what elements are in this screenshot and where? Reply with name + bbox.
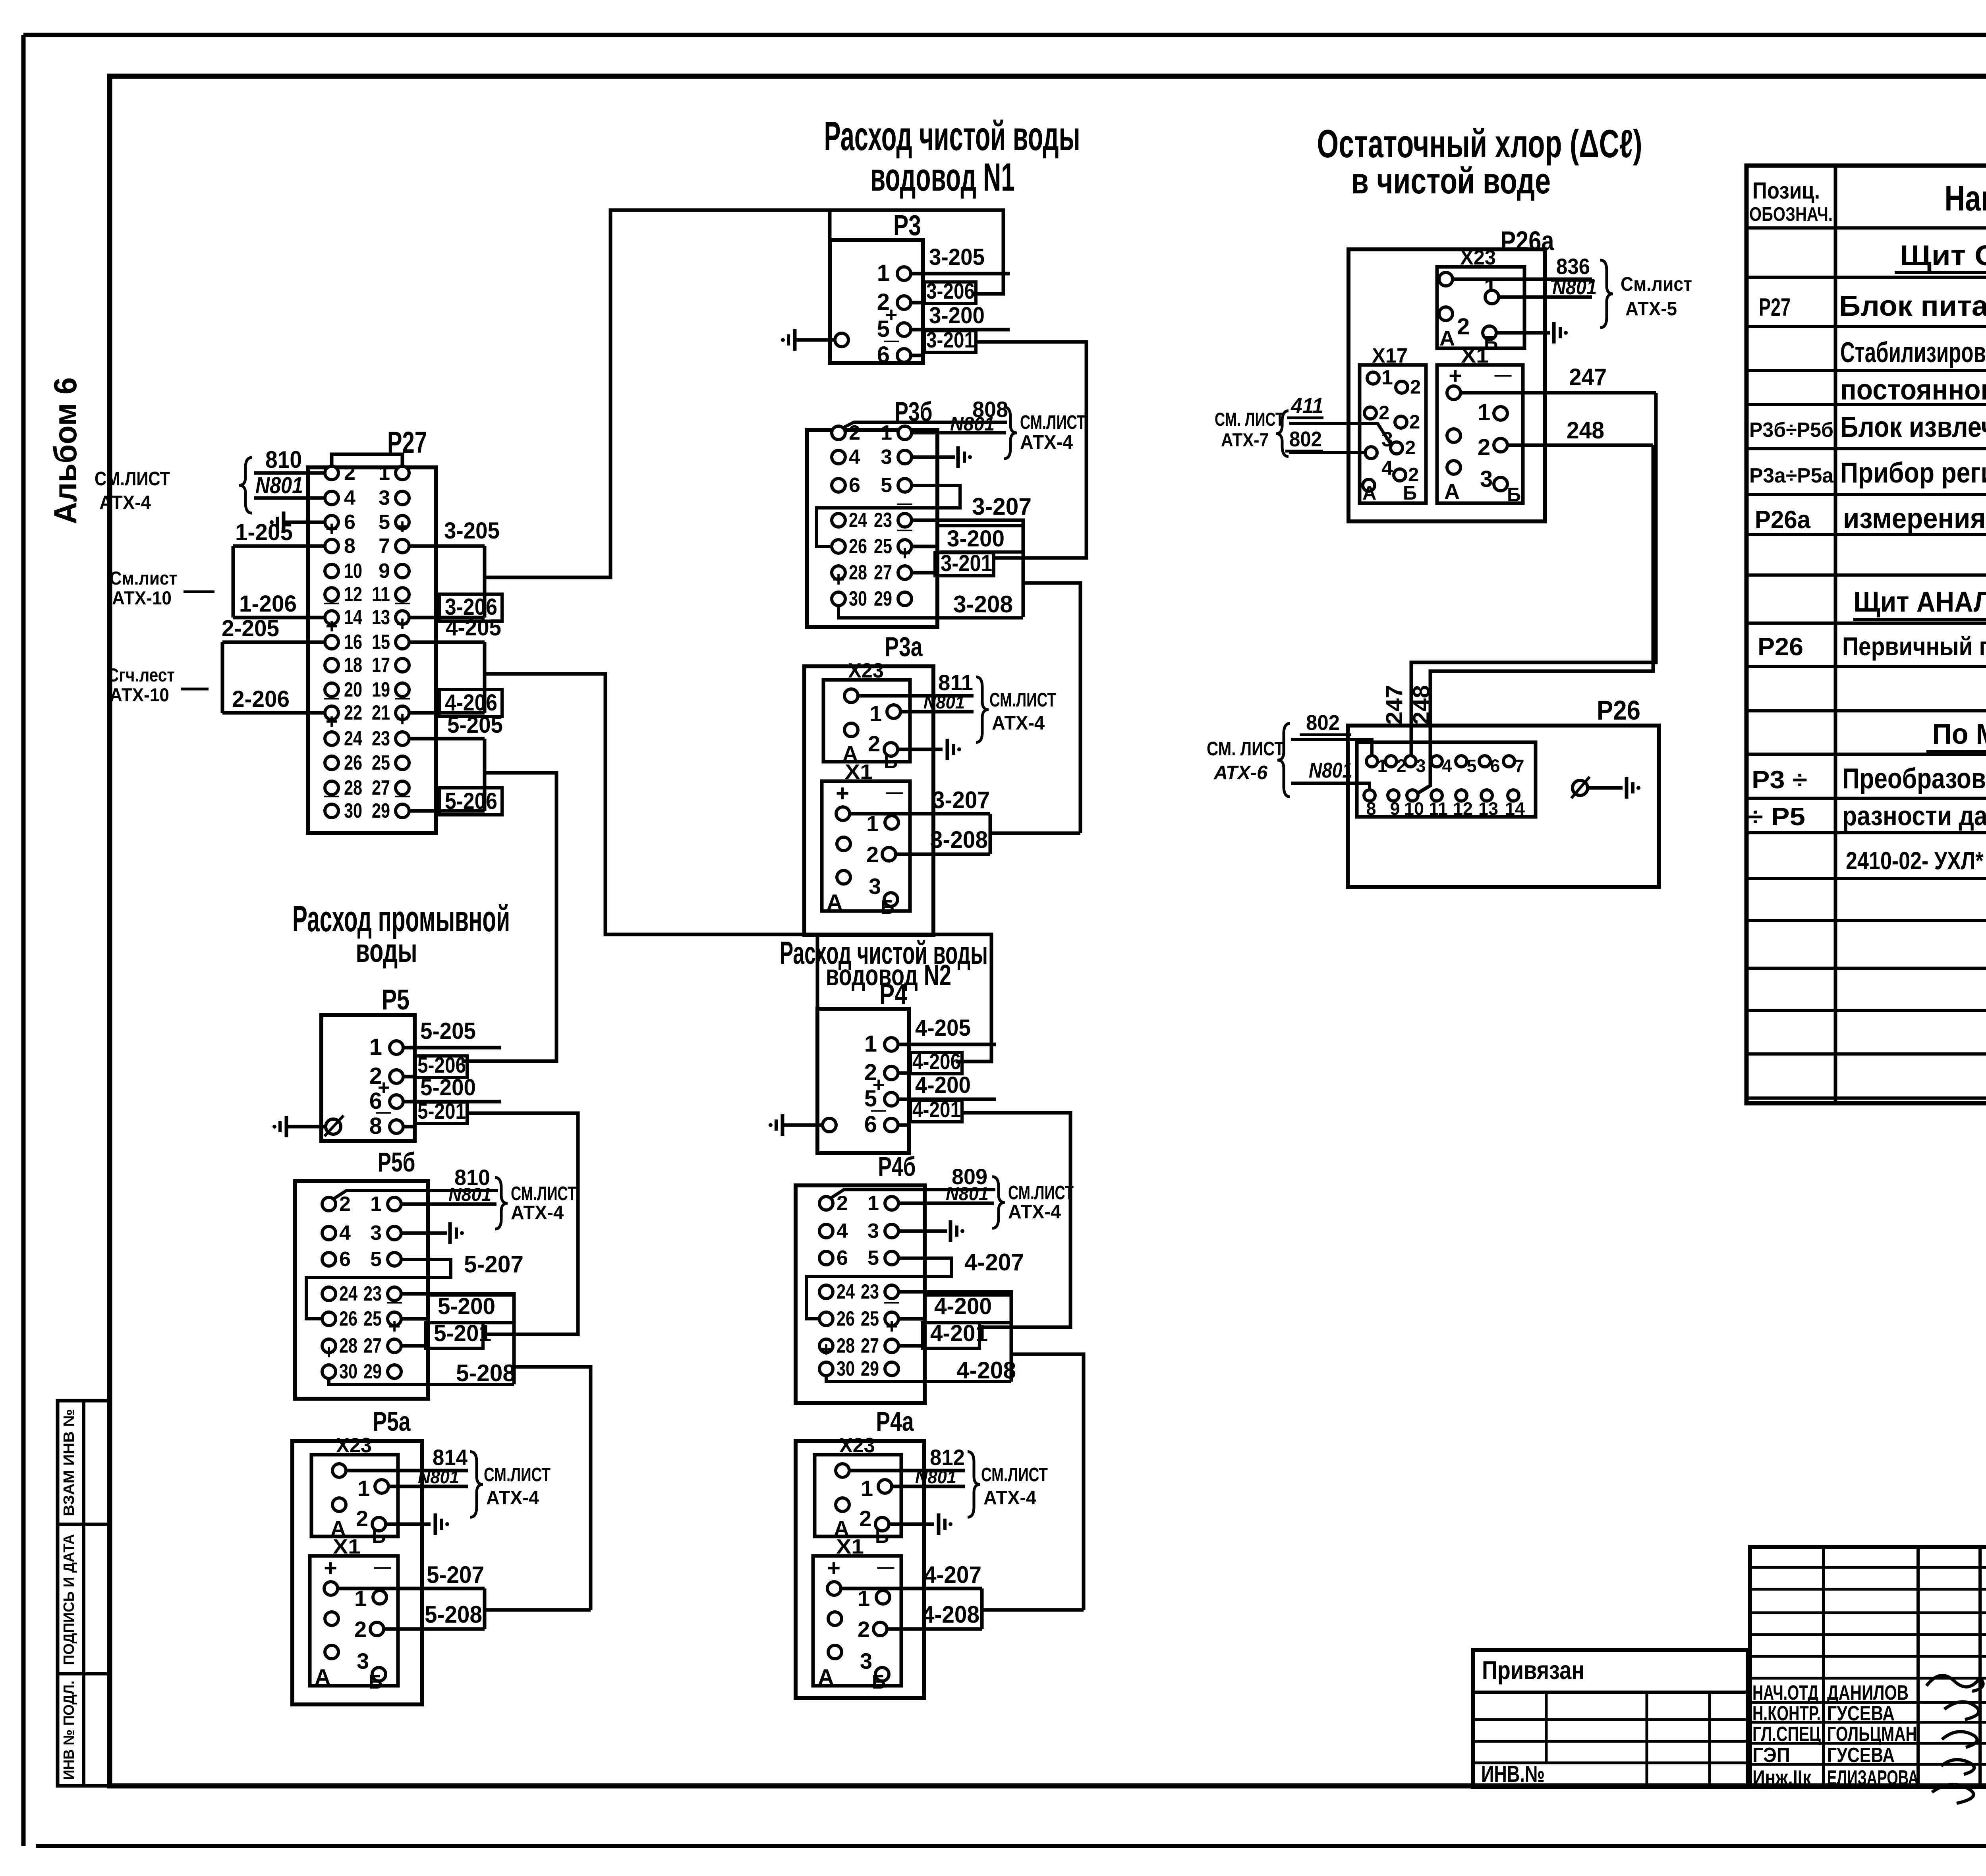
svg-text:3: 3 xyxy=(869,874,881,899)
svg-text:5-200: 5-200 xyxy=(420,1075,476,1100)
svg-text:АТХ-4: АТХ-4 xyxy=(1008,1201,1061,1223)
P27 pin 7 xyxy=(396,539,409,553)
Р4б pin 2 xyxy=(819,1197,833,1210)
wire 3-201 from P3 to P3b xyxy=(976,342,1086,558)
chlorine analyzer secondary P26a body xyxy=(1348,249,1545,521)
parts table row line xyxy=(1746,1009,1986,1012)
P27 pin 4 xyxy=(325,491,338,505)
P26 pin 8 xyxy=(1364,790,1375,801)
svg-text:6: 6 xyxy=(344,511,355,534)
wire 3-208 bottom run at P3b xyxy=(838,606,1023,618)
svg-text:N801: N801 xyxy=(1309,759,1352,782)
P3b pin 24 xyxy=(832,513,845,527)
svg-text:—: — xyxy=(1495,365,1512,384)
svg-text:N801: N801 xyxy=(946,1183,989,1204)
svg-text:1: 1 xyxy=(357,1476,370,1501)
P27 pin 17 xyxy=(396,658,409,672)
parts table row line xyxy=(1746,493,1986,496)
parts table row line xyxy=(1746,831,1986,834)
svg-text:4: 4 xyxy=(339,1222,351,1245)
svg-text:Р5: Р5 xyxy=(382,984,410,1016)
wire 810 to P27 pin 2 xyxy=(254,471,325,475)
svg-text:АТХ-4: АТХ-4 xyxy=(486,1487,539,1509)
terminal block P27 body xyxy=(308,467,436,833)
P27 pin 30 xyxy=(325,804,338,818)
svg-text:Б: Б xyxy=(372,1526,386,1547)
svg-text:Наименование: Наименование xyxy=(1945,179,1986,218)
P3b pin 27 xyxy=(898,566,912,579)
svg-text:5: 5 xyxy=(867,1247,879,1270)
svg-text:14: 14 xyxy=(344,606,362,629)
wire label box 4-201 at Р4б xyxy=(922,1323,979,1348)
wire loop 1-205/1-206 xyxy=(232,546,235,618)
svg-text:ВЗАМ ИНВ №: ВЗАМ ИНВ № xyxy=(61,1409,77,1516)
shield ground at P27 pin 6 xyxy=(270,520,274,524)
wire label box 5-206 at P27 xyxy=(439,788,502,815)
P27 pin 5 xyxy=(396,515,409,529)
P26a connector X23 xyxy=(1437,267,1524,348)
svg-text:5-201: 5-201 xyxy=(434,1320,491,1346)
P26 terminal strip xyxy=(1357,742,1536,817)
P27 pin 29 xyxy=(396,804,409,818)
svg-text:Б: Б xyxy=(881,897,894,918)
svg-text:См.лист: См.лист xyxy=(1621,274,1692,295)
parts table row line xyxy=(1746,797,1986,800)
svg-text:24: 24 xyxy=(344,727,362,750)
svg-text:9: 9 xyxy=(1390,799,1400,819)
wire junction 3-207/208 at Р3а xyxy=(989,814,992,854)
svg-text:X23: X23 xyxy=(1460,246,1496,269)
wire label 3-205 at Р3 pin 1 xyxy=(911,272,1010,276)
svg-text:—: — xyxy=(324,690,339,706)
Р5 pin 6 xyxy=(390,1095,403,1108)
svg-text:—: — xyxy=(387,1294,402,1310)
svg-text:3-208: 3-208 xyxy=(953,591,1013,618)
svg-text:12: 12 xyxy=(344,583,362,606)
svg-text:30: 30 xyxy=(837,1357,855,1380)
wire 4-201 from P4 to P4b xyxy=(962,1113,1070,1327)
Р5б pin 27 xyxy=(388,1339,401,1353)
svg-text:X17: X17 xyxy=(1372,344,1408,367)
svg-text:1: 1 xyxy=(866,811,879,836)
svg-text:5: 5 xyxy=(881,474,892,497)
svg-text:Р3б÷Р5б: Р3б÷Р5б xyxy=(1749,419,1833,442)
svg-text:3: 3 xyxy=(867,1220,879,1243)
svg-text:АТХ-4: АТХ-4 xyxy=(992,712,1045,734)
svg-text:3-207: 3-207 xyxy=(972,493,1032,520)
svg-text:Р5а: Р5а xyxy=(373,1406,411,1437)
svg-text:N801: N801 xyxy=(923,692,965,712)
svg-text:ГУСЕВА: ГУСЕВА xyxy=(1827,1744,1895,1767)
svg-text:5-207: 5-207 xyxy=(427,1561,484,1588)
P26 pin 4 xyxy=(1431,756,1442,767)
wire 4-207 from Р4б pin 23 xyxy=(898,1292,1011,1382)
see sheet ATX-4 note at Р4б xyxy=(992,1177,1005,1228)
svg-text:2: 2 xyxy=(1478,434,1490,460)
svg-text:водовод N1: водовод N1 xyxy=(870,155,1015,199)
parts table column line xyxy=(1834,166,1837,1103)
svg-text:29: 29 xyxy=(372,799,390,822)
P27 pin 26 xyxy=(325,756,338,770)
wire bus drop to P4 box corner xyxy=(816,934,819,1009)
svg-text:—: — xyxy=(886,783,903,802)
svg-text:ГЛ.СПЕЦ: ГЛ.СПЕЦ xyxy=(1752,1723,1821,1746)
P26 pin 1 xyxy=(1366,756,1377,767)
svg-text:811: 811 xyxy=(938,670,973,695)
svg-text:812: 812 xyxy=(930,1445,965,1470)
svg-text:+: + xyxy=(388,1315,400,1338)
wire stub P27 pin 7 xyxy=(409,544,485,548)
svg-text:Преобразователь измерительны: Преобразователь измерительный xyxy=(1842,763,1986,795)
svg-text:10: 10 xyxy=(1404,799,1424,819)
svg-text:X23: X23 xyxy=(336,1434,372,1457)
svg-text:5-201: 5-201 xyxy=(417,1098,466,1123)
svg-text:1-205: 1-205 xyxy=(235,519,293,545)
svg-text:—: — xyxy=(395,690,410,706)
shield ground at Р5 xyxy=(272,1125,276,1129)
svg-text:X1: X1 xyxy=(1461,344,1489,367)
P27 pin 20 xyxy=(325,683,338,697)
svg-text:3-208: 3-208 xyxy=(930,826,988,853)
svg-text:Р4б: Р4б xyxy=(878,1151,916,1182)
svg-text:+: + xyxy=(820,1338,832,1361)
svg-text:3: 3 xyxy=(860,1648,872,1673)
svg-text:+: + xyxy=(326,615,338,638)
svg-text:6: 6 xyxy=(339,1248,351,1271)
Р5а X1 pin plus xyxy=(324,1582,338,1595)
Р4б pin 28 xyxy=(819,1339,833,1353)
parts table row line xyxy=(1746,1096,1986,1100)
P27 pin 18 xyxy=(325,658,338,672)
P27 pin 22 xyxy=(325,706,338,720)
Р4б pin 6 xyxy=(819,1251,833,1265)
svg-text:разности давлений . Сапфир 22: разности давлений . Сапфир 22ДД xyxy=(1842,801,1986,831)
svg-text:4: 4 xyxy=(1442,756,1452,776)
Р5б pin 28 xyxy=(322,1339,336,1353)
svg-text:28: 28 xyxy=(837,1334,855,1357)
parts table outline xyxy=(1746,166,1986,1103)
svg-text:23: 23 xyxy=(363,1282,382,1305)
P26 shield ground xyxy=(1588,786,1623,790)
svg-text:24: 24 xyxy=(837,1280,855,1303)
wire 5-208 bottom run at Р5б xyxy=(329,1378,514,1384)
svg-text:3: 3 xyxy=(357,1648,369,1673)
svg-text:248: 248 xyxy=(1567,417,1604,444)
svg-text:1: 1 xyxy=(861,1476,873,1501)
svg-text:Р3 ÷: Р3 ÷ xyxy=(1752,766,1807,794)
svg-text:2: 2 xyxy=(837,1192,848,1215)
svg-text:26: 26 xyxy=(837,1307,855,1330)
svg-text:N801: N801 xyxy=(255,473,303,498)
P27 pin 8 xyxy=(325,539,338,553)
svg-text:—: — xyxy=(324,787,339,804)
Р5б pin 6 xyxy=(322,1253,336,1266)
svg-text:9: 9 xyxy=(379,560,390,583)
svg-text:4-205: 4-205 xyxy=(446,615,501,641)
svg-text:А: А xyxy=(1444,480,1460,504)
svg-text:+: + xyxy=(836,780,849,806)
Р4а connector X1 xyxy=(813,1556,901,1686)
svg-text:5: 5 xyxy=(379,511,390,534)
wire 4-208 bottom run at Р4б xyxy=(826,1376,1011,1382)
svg-text:27: 27 xyxy=(363,1334,382,1357)
svg-text:Н.КОНТР.: Н.КОНТР. xyxy=(1752,1702,1821,1725)
wire vertical joining P27 pins 7-13 xyxy=(483,546,487,618)
svg-text:3-207: 3-207 xyxy=(932,787,990,813)
svg-text:4: 4 xyxy=(344,486,355,510)
Р3 pin 6 xyxy=(897,349,911,362)
P3b pin 30 xyxy=(832,592,845,606)
svg-text:А: А xyxy=(818,1664,834,1689)
svg-text:1: 1 xyxy=(1381,366,1393,389)
svg-text:2: 2 xyxy=(1409,411,1420,433)
svg-text:АТХ-4: АТХ-4 xyxy=(983,1487,1036,1509)
shield ground at Р3 xyxy=(781,338,785,342)
Р5 pin 8 xyxy=(390,1120,403,1133)
parts table row line xyxy=(1746,709,1986,712)
svg-text:СМ.ЛИСТ: СМ.ЛИСТ xyxy=(981,1464,1048,1486)
wire 836 from P26a xyxy=(1453,278,1592,281)
P26 pin 11 xyxy=(1431,790,1442,801)
Р5б pin 23 xyxy=(388,1287,401,1301)
svg-text:N801: N801 xyxy=(448,1184,491,1205)
svg-text:Р26а: Р26а xyxy=(1755,506,1811,534)
svg-text:—: — xyxy=(395,594,410,611)
svg-text:в чистой воде: в чистой воде xyxy=(1351,161,1551,201)
P27 pin 11 xyxy=(396,588,409,601)
Р4а X1 row2 left pin xyxy=(828,1612,842,1625)
svg-text:N801: N801 xyxy=(915,1467,956,1487)
svg-text:23: 23 xyxy=(372,727,390,750)
svg-text:3: 3 xyxy=(1416,756,1426,776)
Р3а connector X23 xyxy=(823,680,910,762)
wire bus 5-205/5-206 from P27 to P5 xyxy=(462,773,556,1061)
svg-text:А: А xyxy=(827,890,842,915)
wire from P5b into P5a junction xyxy=(485,1608,591,1612)
svg-text:21: 21 xyxy=(372,701,390,724)
P3b pin 25 xyxy=(898,540,912,553)
svg-text:836: 836 xyxy=(1556,254,1590,279)
svg-text:Р26: Р26 xyxy=(1597,695,1640,726)
parts table row line xyxy=(1746,325,1986,328)
svg-text:2: 2 xyxy=(859,1506,871,1531)
svg-text:16: 16 xyxy=(344,631,362,654)
svg-text:24: 24 xyxy=(849,509,867,532)
P26a X23 pin B with shield ground xyxy=(1483,326,1496,340)
P27 pin 13 xyxy=(396,611,409,624)
svg-text:247: 247 xyxy=(1381,685,1407,725)
wire label 5-200 at Р5 pin 6 xyxy=(403,1100,501,1104)
P27 pin 6 xyxy=(325,515,338,529)
P3b pin 23 xyxy=(898,513,912,527)
svg-text:12: 12 xyxy=(1453,799,1473,819)
wire junction 4-207/208 at Р4а xyxy=(980,1588,984,1629)
root extractor unit Р4б body xyxy=(796,1185,925,1403)
P26a X23 pin 2 xyxy=(1439,307,1453,320)
wire label box 5-201 at Р5 pin 8 xyxy=(403,1125,415,1129)
svg-text:30: 30 xyxy=(849,587,867,610)
Р3 pin 1 xyxy=(897,267,911,280)
svg-text:X23: X23 xyxy=(848,659,884,682)
parts table row line xyxy=(1746,573,1986,577)
svg-text:—: — xyxy=(374,1558,391,1577)
svg-text:4: 4 xyxy=(837,1220,848,1243)
wire 4-207 from Р4а xyxy=(841,1587,982,1590)
svg-text:4-200: 4-200 xyxy=(915,1072,971,1098)
Р3а X23 pin top xyxy=(844,689,858,703)
P26a X23 pin top xyxy=(1439,272,1453,286)
wire 814 from Р5а xyxy=(346,1469,468,1473)
parts table row line xyxy=(1746,919,1986,922)
wire 812 from Р4а xyxy=(849,1469,965,1473)
Р5а X1 pin B xyxy=(372,1668,386,1681)
svg-text:АТХ-4: АТХ-4 xyxy=(1020,432,1073,453)
svg-text:3-206: 3-206 xyxy=(926,278,975,303)
svg-text:ДАНИЛОВ: ДАНИЛОВ xyxy=(1827,1681,1909,1704)
wire label box 3-201 at P3b xyxy=(935,553,994,576)
Р5а connector X1 xyxy=(310,1556,398,1686)
svg-text:4-200: 4-200 xyxy=(934,1293,992,1319)
svg-text:20: 20 xyxy=(344,678,362,701)
P26a X17 pin 1 xyxy=(1367,372,1379,384)
wire stub P27 pin 15 xyxy=(409,641,485,644)
svg-text:26: 26 xyxy=(344,751,362,774)
svg-text:3: 3 xyxy=(881,446,892,469)
parts table row line xyxy=(1746,226,1986,230)
pressure transmitter Р3 body xyxy=(830,240,923,363)
svg-text:÷ Р5: ÷ Р5 xyxy=(1748,803,1805,831)
wire N801 from Р3а xyxy=(900,710,974,714)
Р5б pin 1 xyxy=(388,1197,401,1211)
svg-text:4: 4 xyxy=(1381,457,1393,480)
recorder Р4а body xyxy=(796,1441,924,1698)
wire 811 from Р3а xyxy=(858,694,974,698)
P26a X1 pin 3 row xyxy=(1447,461,1461,474)
P26 pin 6 xyxy=(1479,756,1490,767)
svg-text:Р3а: Р3а xyxy=(885,631,923,662)
Р5б pin 3 xyxy=(388,1226,401,1240)
svg-text:Блок питания 22БП-36 исп.: Блок питания 22БП-36 исп.2 xyxy=(1839,290,1986,322)
wire 4-207/208 exit to a-unit xyxy=(1011,1354,1084,1610)
svg-text:247: 247 xyxy=(1569,364,1607,390)
svg-text:По МЕСТУ: По МЕСТУ xyxy=(1932,718,1986,750)
svg-text:6: 6 xyxy=(1490,756,1500,776)
svg-text:2: 2 xyxy=(868,731,880,756)
svg-text:Щит АНАЛИЗАТОРА ХЛОРА: Щит АНАЛИЗАТОРА ХЛОРА xyxy=(1854,586,1986,618)
svg-text:1: 1 xyxy=(864,1031,877,1057)
svg-text:24: 24 xyxy=(339,1282,357,1305)
Р4 pin 1 xyxy=(885,1038,898,1051)
P26 pin 14 xyxy=(1508,790,1519,801)
wire from P4b into P4a junction xyxy=(982,1608,1084,1612)
svg-text:А: А xyxy=(315,1664,330,1689)
shield ground at P3b pin 3 xyxy=(912,455,955,459)
svg-text:Первичный преобразователь 1Е: Первичный преобразователь 1Е5.064.154 xyxy=(1842,632,1986,661)
Р4б pin 5 xyxy=(885,1251,898,1265)
svg-text:4-201: 4-201 xyxy=(912,1097,961,1122)
svg-text:26: 26 xyxy=(849,535,867,558)
P3b pin 3 xyxy=(898,450,912,464)
Р4б pin 24 xyxy=(819,1285,833,1299)
svg-text:802: 802 xyxy=(1289,427,1322,451)
Р5а X23 pin B with shield ground xyxy=(372,1517,386,1531)
svg-text:СМ.ЛИСТ: СМ.ЛИСТ xyxy=(484,1464,551,1486)
pressure transmitter Р5 body xyxy=(321,1015,415,1141)
svg-text:Р3а÷Р5а: Р3а÷Р5а xyxy=(1749,464,1834,487)
see sheet ATX-4 note at Р5б xyxy=(495,1177,508,1229)
Р4а X23 pin 2 xyxy=(836,1498,849,1511)
parts table row line xyxy=(1746,403,1986,406)
P3b pin 29 xyxy=(898,592,912,606)
Р5 pin 2 xyxy=(390,1070,403,1083)
parts table row line xyxy=(1746,276,1986,279)
svg-text:СМ.ЛИСТ: СМ.ЛИСТ xyxy=(511,1183,576,1204)
svg-text:1: 1 xyxy=(370,1193,382,1216)
svg-text:Расход чистой воды: Расход чистой воды xyxy=(824,113,1080,159)
svg-text:Р27: Р27 xyxy=(1759,293,1791,321)
svg-text:2: 2 xyxy=(858,1617,870,1642)
P26 pin 10 xyxy=(1407,790,1418,801)
Р4а connector X23 xyxy=(815,1455,901,1536)
P3b pin 4 xyxy=(832,450,845,464)
P3b pin 5 xyxy=(898,479,912,492)
P26 pin 7 xyxy=(1503,756,1515,767)
svg-text:—: — xyxy=(884,332,899,349)
svg-text:А: А xyxy=(1439,326,1455,350)
shield ground at Р4 xyxy=(769,1123,773,1127)
svg-text:5-205: 5-205 xyxy=(447,712,503,738)
svg-text:4-208: 4-208 xyxy=(956,1357,1016,1384)
root extractor unit Р5б body xyxy=(295,1181,428,1399)
svg-text:СМ.ЛИСТ: СМ.ЛИСТ xyxy=(1008,1182,1074,1204)
parts table row line xyxy=(1746,877,1986,880)
svg-text:3-200: 3-200 xyxy=(929,303,985,328)
P27 pin 1 xyxy=(396,466,409,480)
shield ground at Р4б pin 3 xyxy=(898,1229,947,1233)
wire loop 2-205/2-206 xyxy=(221,642,224,713)
svg-text:Прибор регистрирующий, предел: Прибор регистрирующий, предел xyxy=(1840,457,1986,489)
recorder Р3а body xyxy=(804,666,933,935)
wire Р5б pin 5 loop to pin 26 xyxy=(306,1259,451,1319)
wire N801 from Р4а xyxy=(892,1485,965,1488)
svg-text:2: 2 xyxy=(1379,402,1389,424)
Р4а X23 pin top xyxy=(836,1464,849,1477)
svg-text:28: 28 xyxy=(849,561,867,584)
svg-text:ГУСЕВА: ГУСЕВА xyxy=(1827,1702,1895,1725)
svg-text:1-206: 1-206 xyxy=(239,591,297,617)
svg-text:411: 411 xyxy=(1291,394,1323,418)
wire stub P27 pin 23 xyxy=(409,737,485,741)
svg-text:6: 6 xyxy=(849,474,860,497)
Р4 pin 2 xyxy=(885,1066,898,1080)
svg-text:+: + xyxy=(899,542,911,565)
svg-text:27: 27 xyxy=(861,1334,879,1357)
svg-text:5-208: 5-208 xyxy=(456,1360,516,1386)
parts table row line xyxy=(1746,533,1986,536)
parts table row line xyxy=(1746,967,1986,970)
wire label box 5-206 at Р5 pin 2 xyxy=(403,1075,415,1079)
Р3а X1 pin B xyxy=(884,893,898,906)
Р5б pin 25 xyxy=(388,1312,401,1326)
svg-text:1: 1 xyxy=(877,260,890,286)
Р4б pin 23 xyxy=(885,1285,898,1299)
P27 pin 14 xyxy=(325,611,338,624)
P26a connector X1 xyxy=(1437,365,1523,503)
svg-text:Р26: Р26 xyxy=(1758,633,1803,661)
svg-text:4-205: 4-205 xyxy=(915,1015,971,1041)
svg-text:1: 1 xyxy=(869,701,882,726)
svg-text:Б: Б xyxy=(872,1671,886,1693)
